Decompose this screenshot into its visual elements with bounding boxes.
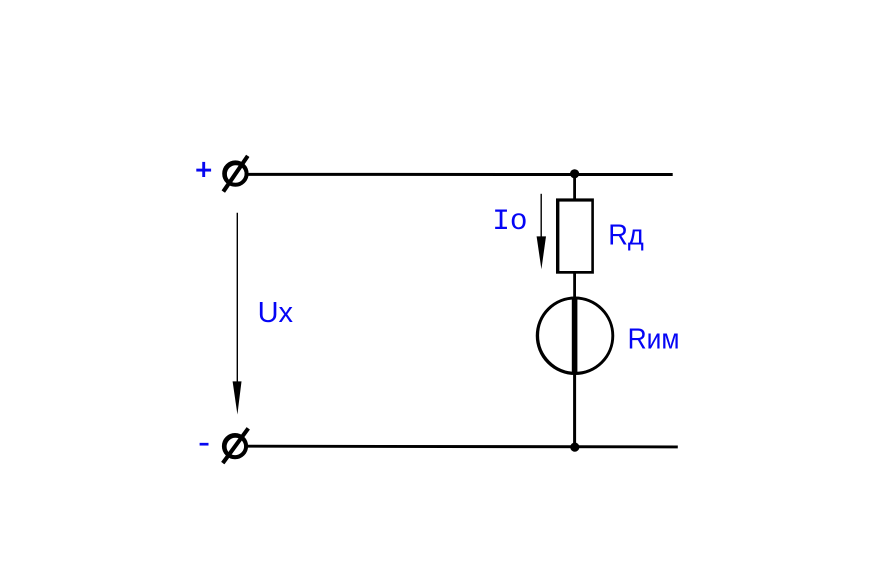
arrow Io (current direction) xyxy=(537,194,546,269)
wire through Rим (thick vertical bar) xyxy=(572,298,578,375)
label - (polarity of input terminal) xyxy=(200,443,209,446)
wire Rд to instrument Rим xyxy=(573,272,576,299)
arrow Ux (voltage direction) xyxy=(233,213,242,415)
terminal T2 (- input) xyxy=(223,428,249,463)
label + (polarity of input terminal) xyxy=(196,162,211,177)
svg-text:Rд: Rд xyxy=(608,219,644,251)
node B (bottom junction) xyxy=(570,443,579,452)
svg-text:Io: Io xyxy=(492,205,527,238)
wire bottom (T2 to right end) xyxy=(246,445,677,449)
instrument Rим (measuring mechanism circle) xyxy=(537,298,613,374)
wire Rим to node B xyxy=(573,374,576,447)
resistor Rд xyxy=(557,200,592,273)
svg-text:Rим: Rим xyxy=(628,323,680,355)
wire node A to resistor Rд xyxy=(573,174,576,200)
svg-text:Ux: Ux xyxy=(258,297,294,329)
wire top (T1 to right end) xyxy=(248,173,673,176)
node A (top junction) xyxy=(570,169,579,178)
terminal T1 (+ input) xyxy=(223,156,248,192)
